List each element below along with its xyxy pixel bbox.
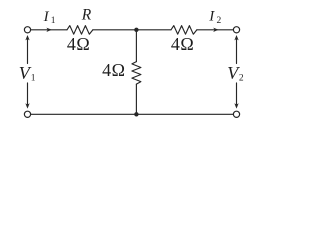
port-2 arrowhead up (234, 35, 238, 40)
svg-text:I: I (208, 8, 215, 24)
node A junction dot (134, 28, 138, 32)
current arrow I1 head (46, 28, 51, 32)
svg-text:4Ω: 4Ω (102, 60, 125, 80)
terminal circle top-right (233, 27, 239, 33)
wire bottom rail (31, 113, 233, 115)
terminal circle bottom-left (24, 111, 30, 117)
port-2 voltage arrow shaft lower (236, 83, 238, 107)
svg-text:R: R (81, 7, 92, 24)
port-1 arrowhead down (25, 103, 29, 108)
svg-text:1: 1 (51, 16, 56, 26)
current arrow I2 head (213, 28, 218, 32)
port-2 voltage arrow shaft upper (236, 37, 238, 64)
wire top-middle: node A to resistor R2 (136, 29, 171, 31)
svg-text:I: I (43, 9, 50, 25)
resistor R2 (4 ohm) zigzag (171, 26, 197, 35)
port-1 arrowhead up (25, 35, 29, 40)
port-1 voltage arrow shaft upper (27, 37, 29, 64)
wire top-middle: R to node A (93, 29, 136, 31)
terminal circle top-left (24, 27, 30, 33)
resistor R3 (4 ohm shunt) vertical zigzag (132, 62, 141, 85)
port-1 voltage arrow shaft lower (27, 83, 29, 107)
svg-text:2: 2 (217, 16, 222, 26)
svg-text:2: 2 (239, 74, 244, 84)
wire top-right: R2 to terminal (197, 29, 233, 31)
svg-text:1: 1 (31, 74, 36, 84)
wire top-left: terminal to resistor R (31, 29, 67, 31)
port-2 arrowhead down (234, 103, 238, 108)
terminal circle bottom-right (233, 111, 239, 117)
wire shunt bottom lead: to node B (135, 84, 137, 114)
resistor R1 (R, 4 ohm) zigzag (67, 26, 93, 35)
wire shunt top lead: node A down (135, 30, 137, 62)
svg-text:4Ω: 4Ω (171, 34, 194, 54)
svg-text:4Ω: 4Ω (67, 34, 90, 54)
node B junction dot (134, 112, 138, 116)
